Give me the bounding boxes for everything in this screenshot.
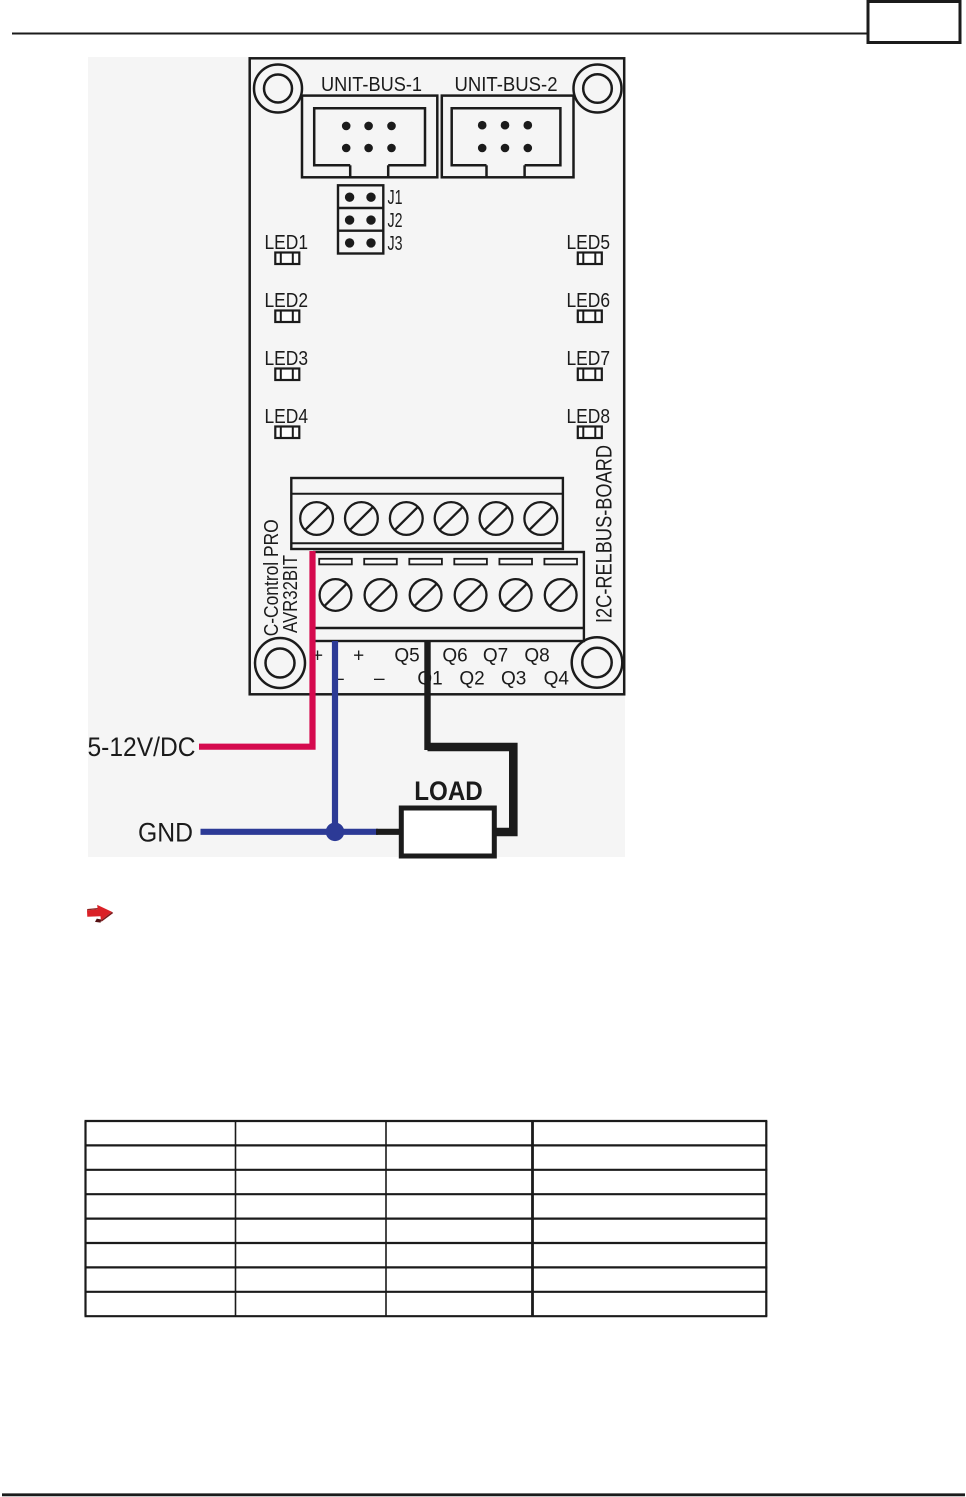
svg-text:UNIT-BUS-1: UNIT-BUS-1 (321, 74, 422, 96)
svg-text:LED1: LED1 (265, 232, 309, 254)
jumper block J1 J2 J3 (338, 185, 383, 253)
header rule (12, 33, 867, 35)
svg-text:AVR32BIT: AVR32BIT (280, 555, 302, 633)
svg-text:Q4: Q4 (544, 669, 570, 690)
LED2 (275, 311, 299, 323)
figure background (88, 57, 625, 857)
svg-text:J2: J2 (388, 210, 403, 232)
LED4 (275, 427, 299, 439)
svg-text:LED6: LED6 (567, 290, 611, 312)
mounting hole top-left (254, 65, 302, 113)
svg-text:I2C-RELBUS-BOARD: I2C-RELBUS-BOARD (592, 445, 617, 623)
svg-text:–: – (374, 669, 385, 690)
svg-text:LOAD: LOAD (414, 776, 483, 806)
svg-text:LED2: LED2 (265, 290, 309, 312)
svg-text:J1: J1 (388, 187, 403, 209)
terminal block upper (6 screws) (291, 478, 563, 549)
svg-text:LED8: LED8 (567, 406, 611, 428)
wire GND horizontal (blue) (201, 829, 379, 835)
wire GND vertical (blue) (332, 641, 338, 832)
svg-text:J3: J3 (388, 233, 403, 255)
junction GND node (326, 823, 345, 842)
wire Q1 to load (black) (424, 641, 430, 750)
LED1 (275, 253, 299, 265)
wire load loop (black) (428, 747, 514, 832)
svg-text:LED4: LED4 (265, 406, 309, 428)
board outline I2C-RELBUS-BOARD pcb (250, 58, 625, 694)
svg-text:5-12V/DC: 5-12V/DC (88, 732, 196, 762)
connector UNIT-BUS-1 (302, 96, 437, 178)
arrow bullet (87, 905, 113, 923)
LED3 (275, 369, 299, 381)
wire GND to load (black) (376, 829, 402, 835)
mounting hole bottom-right (572, 637, 623, 688)
mounting hole bottom-left (255, 638, 305, 688)
svg-text:LED5: LED5 (567, 232, 611, 254)
LED6 (578, 311, 602, 323)
svg-text:Q6: Q6 (442, 646, 467, 667)
svg-text:Q3: Q3 (501, 669, 526, 690)
svg-text:Q2: Q2 (459, 669, 484, 690)
LED5 (578, 253, 602, 265)
mounting hole top-right (574, 65, 622, 113)
terminal block lower (6 screws) (314, 552, 584, 641)
svg-text:Q7: Q7 (483, 646, 508, 667)
connector UNIT-BUS-2 (442, 96, 574, 178)
table (8 rows x 4 cols, empty) (85, 1121, 768, 1316)
label C-Control PRO AVR32BIT (261, 519, 302, 636)
page number box (868, 2, 960, 43)
wire 5-12V/DC supply (red) (199, 551, 313, 747)
svg-text:LED7: LED7 (567, 348, 611, 370)
load resistor box (401, 808, 494, 856)
svg-text:UNIT-BUS-2: UNIT-BUS-2 (455, 74, 558, 96)
svg-text:Q5: Q5 (394, 646, 419, 667)
footer rule (2, 1493, 965, 1496)
svg-text:GND: GND (138, 818, 193, 848)
svg-text:Q8: Q8 (524, 646, 549, 667)
svg-text:LED3: LED3 (265, 348, 309, 370)
LED7 (578, 369, 602, 381)
svg-text:+: + (353, 646, 364, 667)
LED8 (578, 427, 602, 439)
